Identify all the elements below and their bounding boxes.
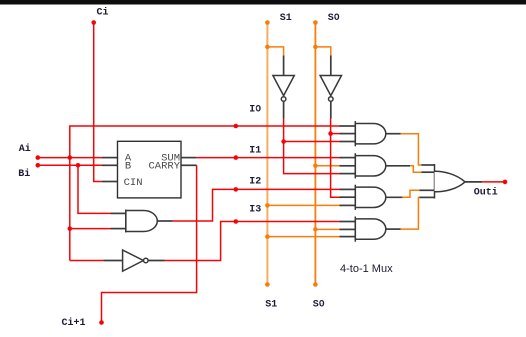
wire S1n branch to gate1 input3	[284, 141, 340, 143]
node S0 inverter junction	[313, 45, 318, 50]
pin stub CARRY output	[181, 164, 197, 166]
wire NOT input segment	[70, 260, 104, 262]
pin stub gate1 output	[386, 133, 401, 135]
and-gate G4 (mux, 3-input)	[355, 217, 386, 242]
pin stub gate4 output	[386, 228, 401, 230]
inverter V1 (S1, pointing down)	[273, 76, 294, 102]
wire S0 to gate2 input2	[315, 165, 339, 167]
svg-text:I2: I2	[249, 177, 261, 188]
wire Ci vertical to CIN	[94, 23, 102, 182]
node I2 junction	[234, 187, 239, 192]
and-gate G1 (mux, 3-input)	[355, 121, 385, 146]
svg-text:Ci: Ci	[97, 7, 109, 19]
pin stub OR output	[465, 181, 482, 183]
inverter V2 (S0, pointing down)	[320, 76, 341, 102]
wire CARRY to Ci+1	[102, 165, 197, 322]
svg-text:S0: S0	[328, 13, 340, 24]
node S1 top terminal	[265, 20, 270, 25]
pin stub inverter1 output	[283, 102, 285, 119]
pin stub inverter2 input	[330, 56, 332, 76]
svg-text:Ai: Ai	[19, 143, 31, 155]
wire AND output to I2 line	[173, 189, 340, 221]
pin stubs gate1 inputs	[340, 126, 356, 142]
wire gate1 output to OR input1	[401, 134, 422, 165]
svg-text:CIN: CIN	[124, 177, 143, 189]
wire S0 to gate4 input2	[315, 228, 339, 230]
svg-text:I0: I0	[249, 105, 261, 116]
pin stub NOT output	[148, 260, 164, 262]
wire OR output red	[482, 181, 505, 183]
svg-text:I1: I1	[249, 146, 261, 157]
node S1 gate3 junction	[265, 203, 270, 208]
pin stubs gate3 inputs	[340, 189, 356, 205]
pin stub AND input2	[111, 228, 126, 230]
pin stubs gate2 inputs	[340, 158, 356, 174]
not-gate N1 (left inverter)	[123, 250, 149, 271]
wire AND input 2	[70, 228, 111, 230]
zero glyph slash covers	[257, 15, 338, 304]
node S0 gate4 junction	[313, 227, 318, 232]
pin stub A input	[102, 157, 118, 159]
full adder box U1	[118, 141, 182, 198]
node AND input2 junction	[68, 226, 73, 231]
node Ci+1 terminal	[99, 320, 104, 325]
node Ci	[91, 20, 96, 25]
wire S1 to gate3 input3	[267, 204, 339, 206]
wire S1 rail	[266, 23, 268, 285]
pin stub gate2 output	[386, 165, 410, 167]
svg-text:S0: S0	[313, 299, 325, 310]
wire gate4 output to OR input4	[401, 197, 420, 229]
wire S1n vertical with branches	[284, 119, 340, 174]
wire Ai branch vertical and I0 line	[70, 126, 340, 261]
pin stub B input	[102, 164, 118, 166]
svg-text:CARRY: CARRY	[148, 161, 180, 173]
node I0 junction	[234, 124, 239, 129]
top border bar	[0, 0, 526, 5]
svg-text:Bi: Bi	[18, 168, 30, 180]
pin stub SUM output	[181, 157, 197, 159]
wire gate3 output to OR input3	[402, 190, 419, 197]
pin stub gate3 output	[386, 196, 403, 198]
wire S0n vertical with branch	[331, 119, 340, 198]
wire Bi branch vertical to AND input 1	[78, 165, 111, 213]
pin stub AND output	[157, 220, 172, 222]
pin stub inverter2 output	[330, 102, 332, 119]
pin stubs OR inputs	[420, 165, 435, 197]
pin stub AND input1	[111, 212, 126, 214]
node Ai terminal	[36, 155, 41, 160]
wire NOT output to I3 line	[165, 222, 340, 261]
node I1 junction	[234, 155, 239, 160]
and-gate G2 (mux, 3-input)	[355, 153, 385, 178]
svg-text:Outi: Outi	[474, 187, 498, 199]
node S0 bottom terminal	[313, 282, 318, 287]
wire S1 branch to inverter1	[267, 47, 283, 56]
wire gate2 output to OR input2	[410, 166, 422, 172]
node S1 bottom terminal	[265, 282, 270, 287]
and-gate A1 (left, 2-input)	[126, 210, 157, 233]
pin stubs gate4 inputs	[340, 222, 356, 237]
node S0 top terminal	[313, 20, 318, 25]
pin stub inverter1 input	[283, 56, 285, 76]
pin stub CIN input	[102, 181, 118, 183]
or-gate O1 (4-input)	[435, 164, 466, 199]
svg-text:I3: I3	[249, 205, 261, 216]
wire SUM to I1 line	[197, 157, 340, 159]
wire S0 branch to inverter2	[315, 47, 330, 56]
svg-text:4-to-1 Mux: 4-to-1 Mux	[340, 263, 393, 275]
wire Bi horizontal	[38, 164, 102, 166]
node S0 gate2 junction	[313, 164, 318, 169]
pin stub NOT input	[104, 260, 123, 262]
node S1 gate4 junction	[265, 234, 270, 239]
svg-text:B: B	[125, 161, 131, 173]
svg-text:S1: S1	[280, 13, 292, 24]
node S1 inverter junction	[265, 45, 270, 50]
node Bi junction	[76, 163, 81, 168]
node Ai junction	[68, 155, 73, 160]
wire S0 rail	[314, 23, 316, 285]
node S1n junction	[281, 139, 286, 144]
wire S1 to gate4 input3	[267, 236, 339, 238]
svg-text:S1: S1	[265, 299, 277, 310]
wire Ai horizontal	[38, 157, 102, 159]
node I3 junction	[234, 219, 239, 224]
node Outi terminal	[503, 180, 508, 185]
and-gate G3 (mux, 3-input)	[355, 185, 386, 210]
wire S0n branch to gate1 input2	[331, 133, 340, 135]
svg-text:Ci+1: Ci+1	[62, 317, 86, 329]
node S0n junction	[328, 131, 333, 136]
node Bi terminal	[36, 163, 41, 168]
